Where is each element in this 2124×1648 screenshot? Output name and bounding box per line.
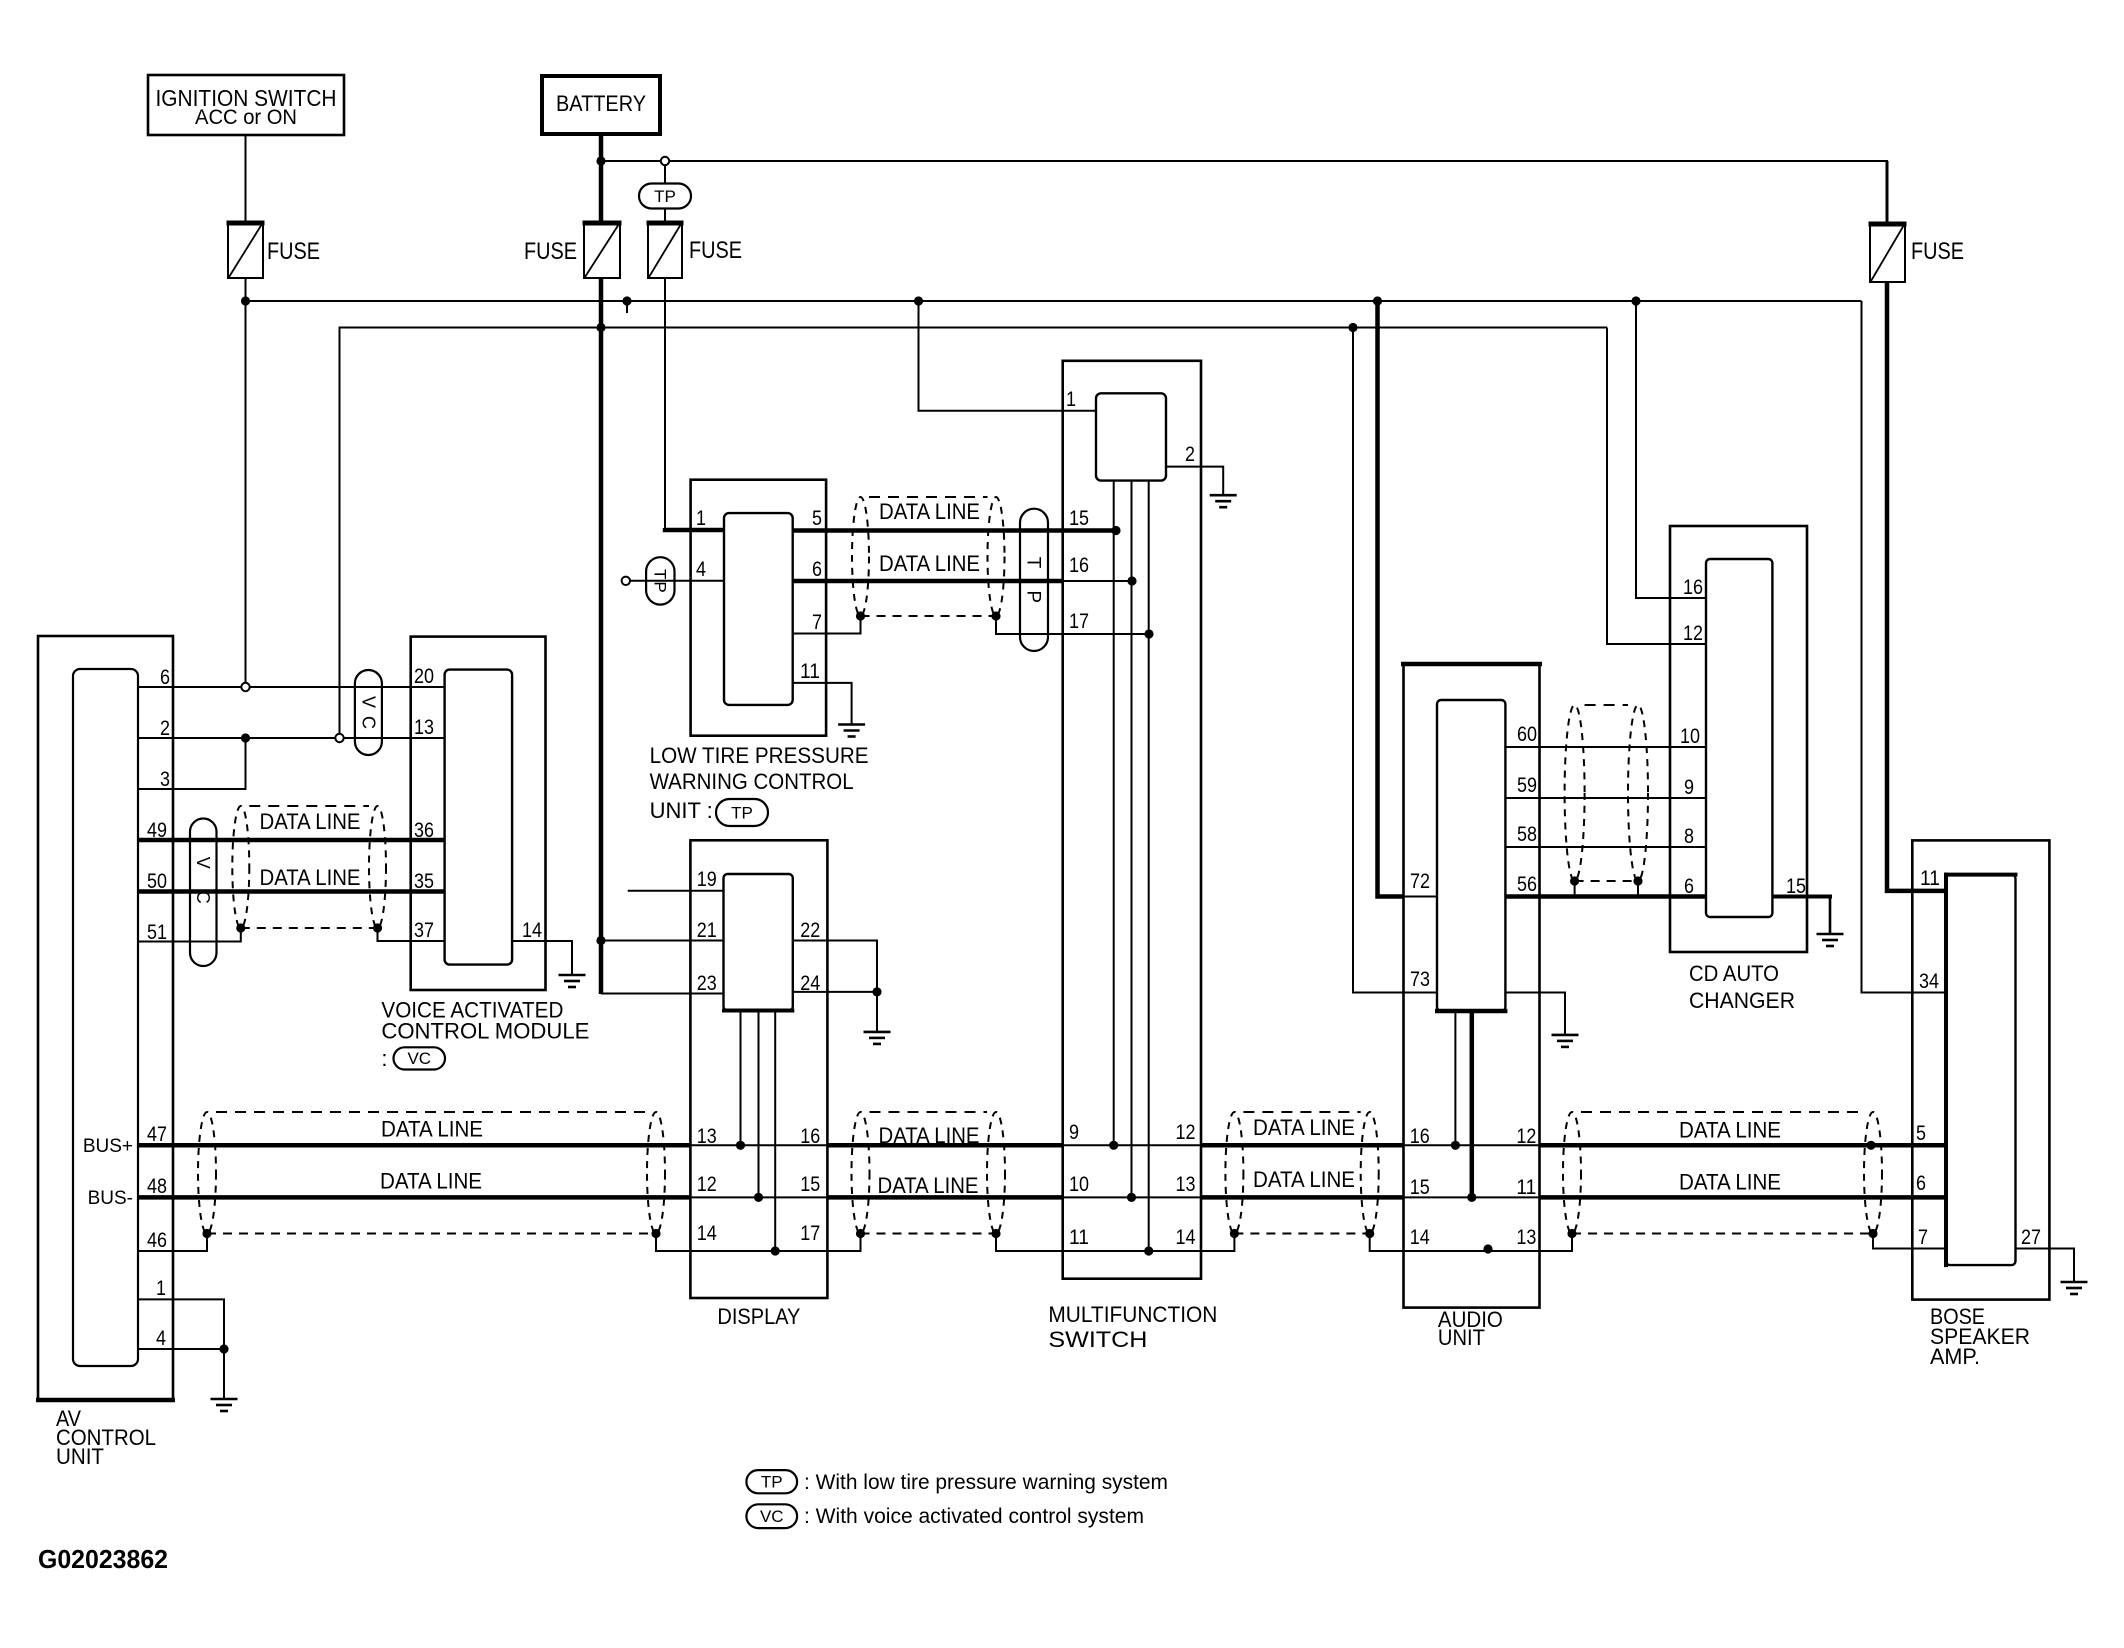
svg-text:14: 14 [522, 919, 542, 942]
node audio drop2 on BUS- [1467, 1193, 1476, 1202]
svg-text:13: 13 [414, 716, 434, 739]
svg-text:58: 58 [1517, 823, 1537, 846]
wire BUS+ display to multifunction (thick) [827, 1143, 1062, 1148]
voice shield drain dashed [241, 927, 378, 929]
wire audio ground line [1505, 993, 1565, 1035]
wire fuse F2 output thick vertical to display pins 21/23 [599, 278, 604, 994]
wire audio 59 to CD 9 [1505, 797, 1706, 799]
node line2 x1353 [1348, 323, 1357, 332]
wire BUS+ multifunction to audio (thick) [1201, 1143, 1404, 1148]
node AV ground junction [219, 1344, 228, 1353]
svg-text:7: 7 [1918, 1226, 1928, 1249]
bus drain dashed AV-display [207, 1233, 656, 1235]
node voice shield drain left [236, 923, 245, 932]
node display ground junction [872, 987, 881, 996]
svg-text:23: 23 [697, 972, 717, 995]
legend VC symbol [746, 1504, 797, 1528]
low tire unit inner connector box [724, 513, 793, 705]
svg-text:TP: TP [761, 1472, 783, 1491]
TP legend symbol at low tire unit [716, 799, 768, 826]
wire BUS- AV to display (thick) [138, 1195, 690, 1200]
node multi drop3 on drain [1144, 1246, 1153, 1255]
node low tire shield drain left [856, 611, 865, 620]
bus shield AV-display [198, 1112, 216, 1234]
svg-text:CHANGER: CHANGER [1689, 988, 1795, 1013]
node ACC at ignition fuse [241, 296, 250, 305]
svg-text:DATA LINE: DATA LINE [260, 809, 361, 834]
svg-text:SWITCH: SWITCH [1048, 1327, 1147, 1352]
svg-text:: With low tire pressure warni: : With low tire pressure warning system [804, 1470, 1168, 1494]
wire AV pin 3 up to pin 2 [138, 738, 246, 789]
wire BUS- audio to BOSE (thick) [1540, 1195, 1947, 1200]
wire audio connector drop 2 (thick) [1470, 1011, 1475, 1197]
ground display [864, 1031, 891, 1034]
svg-text:15: 15 [1410, 1176, 1430, 1199]
multifunction inner connector box (top) [1096, 393, 1166, 480]
svg-text:TP: TP [731, 803, 753, 822]
node drain 656 [651, 1229, 660, 1238]
ground audio unit [1552, 1034, 1579, 1037]
svg-text:21: 21 [697, 919, 717, 942]
wire display connector drop 1 [740, 1011, 742, 1146]
svg-text:DATA LINE: DATA LINE [878, 1173, 979, 1198]
wire data line AV 49 to voice 36 (thick) [138, 838, 445, 843]
svg-text:6: 6 [160, 666, 170, 689]
wire drop to CD pin 12 [1607, 328, 1706, 645]
wire multifunction connector drop 1 [1113, 481, 1115, 1146]
svg-text:60: 60 [1517, 723, 1537, 746]
svg-text:UNIT :: UNIT : [650, 798, 713, 823]
wire AV pin 46 to bus drain [138, 1234, 207, 1252]
wire display pin 22 to ground junction [793, 941, 877, 992]
svg-text:UNIT: UNIT [56, 1444, 104, 1469]
node ACC stub x627 [622, 296, 631, 305]
svg-text:11: 11 [1920, 867, 1940, 890]
wire circle to TP symbol [664, 165, 666, 184]
display inner connector box [724, 874, 793, 1011]
svg-text:FUSE: FUSE [267, 238, 320, 265]
svg-text:27: 27 [2021, 1226, 2041, 1249]
wire AV pin 2 to voice module pin 13 [138, 737, 445, 739]
svg-text:4: 4 [696, 558, 706, 581]
ground CD auto changer [1817, 933, 1844, 936]
wire audio 60 to CD 10 [1505, 746, 1706, 748]
svg-text:FUSE: FUSE [689, 237, 742, 264]
bus drain dashed audio-BOSE [1572, 1233, 1873, 1235]
wire BUS+ audio to BOSE (thick) [1540, 1143, 1947, 1148]
low tire pressure warning control unit outer box [691, 480, 827, 736]
svg-text:59: 59 [1517, 774, 1537, 797]
display outer box [690, 840, 827, 1298]
CD data shield [1565, 705, 1585, 881]
svg-text:14: 14 [1410, 1226, 1430, 1249]
svg-text:37: 37 [414, 919, 434, 942]
low tire shield drain dashed [861, 615, 997, 617]
node fuse F2 output on line ACC2 [596, 323, 605, 332]
svg-text:: With voice activated control: : With voice activated control system [804, 1504, 1144, 1528]
bus shield audio-BOSE [1563, 1112, 1581, 1234]
svg-text:VC: VC [760, 1507, 784, 1526]
node display drop1 on BUS+ [736, 1141, 745, 1150]
node low tire shield drain right [991, 611, 1000, 620]
svg-text:DATA LINE: DATA LINE [879, 499, 980, 524]
wire ignition switch to fuse F1 [245, 135, 247, 223]
svg-text:16: 16 [1069, 554, 1089, 577]
svg-text:DISPLAY: DISPLAY [717, 1304, 800, 1329]
wire battery to display pin 21 [601, 940, 724, 942]
svg-text:ACC or ON: ACC or ON [195, 105, 297, 129]
svg-text:2: 2 [1185, 443, 1195, 466]
node battery feed at display pin 21 [596, 936, 605, 945]
VC option symbol on pins 6/2 [355, 670, 382, 755]
wire fuse F4 down to BOSE pin 11 (thick) [1887, 282, 1946, 891]
node audio drain dot [1483, 1244, 1492, 1253]
node drain 1234 [1230, 1229, 1239, 1238]
ground multifunction switch [1210, 494, 1237, 497]
svg-text:BATTERY: BATTERY [556, 91, 646, 116]
node voice shield drain right [373, 923, 382, 932]
connector circle AV pin 2 [335, 734, 343, 742]
wire multifunction pin 2 to ground [1166, 467, 1223, 496]
svg-text:22: 22 [800, 919, 820, 942]
svg-text:BUS+: BUS+ [83, 1136, 133, 1157]
svg-text:AMP.: AMP. [1930, 1344, 1980, 1369]
TP option symbol (battery feed) [639, 184, 691, 209]
node ACC to audio pin 72 [1373, 296, 1382, 305]
CD shield drain dashed [1575, 880, 1638, 882]
node ACC to CD pin 16 [1631, 296, 1640, 305]
wire data line low tire 6 to multi 16 (thick+thin) [793, 579, 1063, 584]
CD auto changer inner connector box [1706, 559, 1772, 917]
svg-text:VC: VC [193, 857, 213, 926]
svg-text:12: 12 [697, 1173, 717, 1196]
node B1 battery junction [596, 156, 605, 165]
svg-text:3: 3 [160, 768, 170, 791]
wire circle to low tire pin 4 [630, 580, 724, 582]
svg-text:G02023862: G02023862 [38, 1544, 168, 1574]
wire ACC line y301 [246, 300, 1862, 302]
svg-text:35: 35 [414, 870, 434, 893]
node multi drop1 on BUS+ [1109, 1141, 1118, 1150]
node audio drop1 on BUS+ [1451, 1141, 1460, 1150]
fuse F1 (ignition ACC) [228, 223, 263, 278]
svg-text:5: 5 [812, 507, 822, 530]
wire to AV ground [223, 1349, 225, 1399]
svg-text:10: 10 [1680, 725, 1700, 748]
node AV pin 2 junction [241, 733, 250, 742]
low tire data shield [852, 497, 869, 616]
wire node B1 to right fuse F4 (B+ rail) [605, 160, 1888, 162]
multifunction switch outer box [1063, 361, 1201, 1279]
node CD shield drain right [1633, 876, 1642, 885]
VC legend symbol at voice module [394, 1047, 446, 1069]
svg-text:FUSE: FUSE [1911, 238, 1964, 265]
BOSE inner connector box [1946, 875, 2016, 1266]
node multi drop2 on BUS- [1127, 1193, 1136, 1202]
voice data shield [232, 806, 249, 928]
svg-text:1: 1 [696, 507, 706, 530]
svg-text:17: 17 [800, 1222, 820, 1245]
svg-text:CD AUTO: CD AUTO [1689, 961, 1779, 986]
svg-text:FUSE: FUSE [524, 238, 577, 265]
wire audio connector drop 1 [1454, 1011, 1456, 1145]
node drain 860 [856, 1229, 865, 1238]
voice activated control module outer box [411, 637, 546, 990]
svg-text:DATA LINE: DATA LINE [879, 551, 980, 576]
svg-text:8: 8 [1684, 825, 1694, 848]
svg-text:DATA LINE: DATA LINE [381, 1117, 483, 1142]
audio unit inner connector box [1437, 700, 1505, 1011]
bus drain dashed multifunction-audio [1234, 1233, 1369, 1235]
svg-text:34: 34 [1919, 970, 1939, 993]
svg-text:12: 12 [1516, 1125, 1536, 1148]
svg-text:9: 9 [1069, 1121, 1079, 1144]
wire drain audio pins 14-13 [1370, 1234, 1572, 1252]
wire data line low tire 5 to multi 15 (thick) [793, 528, 1116, 533]
wire CD pin 15 to ground [1772, 895, 1832, 899]
ground AV control unit [211, 1398, 238, 1401]
svg-text:DATA LINE: DATA LINE [1679, 1170, 1781, 1195]
svg-text:UNIT: UNIT [1438, 1325, 1485, 1350]
node multi pin 15 [1111, 526, 1120, 535]
svg-text:6: 6 [1916, 1172, 1926, 1195]
node multi pin 17 [1144, 629, 1153, 638]
wire BOSE pin 27 to ground [2016, 1249, 2075, 1283]
svg-text:73: 73 [1410, 968, 1430, 991]
svg-text:MULTIFUNCTION: MULTIFUNCTION [1048, 1302, 1217, 1327]
node display drop2 on BUS- [754, 1193, 763, 1202]
svg-text:11: 11 [1516, 1176, 1536, 1199]
VC option symbol on pins 49/50/51 [190, 819, 217, 967]
svg-text:6: 6 [812, 558, 822, 581]
svg-text:2: 2 [160, 717, 170, 740]
svg-text:9: 9 [1684, 776, 1694, 799]
voice module inner connector box [445, 670, 512, 965]
node CD shield drain left [1570, 876, 1579, 885]
wire BUS- inside display [690, 1196, 827, 1198]
wire TP fuse to low tire pin 1 (thick) [664, 278, 666, 530]
wire battery to display pin 23 [601, 993, 724, 995]
wire battery to node B1 (thick) [599, 134, 604, 223]
svg-text:16: 16 [1683, 576, 1703, 599]
svg-text:16: 16 [1410, 1125, 1430, 1148]
svg-text:12: 12 [1176, 1121, 1196, 1144]
svg-text:DATA LINE: DATA LINE [1679, 1118, 1781, 1143]
wire low tire pin 7 to shield drain [793, 616, 861, 634]
wire multifunction connector drop 3 [1148, 481, 1150, 1251]
wire data line AV 50 to voice 35 (thick) [138, 889, 445, 894]
ground BOSE speaker amp [2061, 1281, 2088, 1284]
wire drop to CD pin 16 [1636, 301, 1706, 598]
wire AV pin 4 to ground [138, 1348, 224, 1350]
svg-text:48: 48 [147, 1175, 167, 1198]
connector circle AV pin 6 [241, 683, 249, 691]
svg-text:4: 4 [156, 1327, 166, 1350]
wire display connector drop 3 [774, 1011, 776, 1252]
battery box [542, 76, 660, 134]
node multi pin 16 [1127, 576, 1136, 585]
wire shield drain to multi pin 17 [996, 616, 1149, 634]
svg-text:14: 14 [697, 1222, 717, 1245]
wire AV pin 51 to shield drain [138, 928, 241, 942]
svg-text:17: 17 [1069, 610, 1089, 633]
bus shield multifunction-audio [1225, 1112, 1243, 1234]
svg-text:19: 19 [697, 868, 717, 891]
svg-text:TP: TP [654, 187, 676, 206]
svg-text:20: 20 [414, 665, 434, 688]
TP option symbol large (data lines) [1020, 509, 1048, 651]
svg-text:13: 13 [1176, 1173, 1196, 1196]
wire data line audio 56 to CD 6 (thick) [1505, 894, 1706, 899]
svg-text:DATA LINE: DATA LINE [1253, 1167, 1355, 1192]
fuse F4 (right) [1870, 224, 1905, 282]
wire BUS- inside audio [1404, 1196, 1540, 1198]
wire battery line2 y327.5 [340, 328, 1608, 739]
node ACC to multifunction [914, 296, 923, 305]
bus shield display-multifunction [852, 1112, 870, 1234]
wire TP symbol to fuse F3 [664, 209, 666, 224]
svg-text:DATA LINE: DATA LINE [380, 1169, 482, 1194]
svg-text::: : [381, 1046, 387, 1071]
wire low tire pin 11 to ground [793, 683, 852, 725]
svg-text:1: 1 [156, 1277, 166, 1300]
wire AV pin 6 to voice module pin 20 [138, 686, 445, 688]
AV control unit outer box [38, 636, 173, 1400]
wire BUS+ AV to display (thick) [138, 1143, 690, 1148]
audio unit outer box [1404, 664, 1540, 1308]
svg-text:36: 36 [414, 819, 434, 842]
connector circle on B+ rail [661, 157, 669, 165]
svg-text:CONTROL MODULE: CONTROL MODULE [381, 1018, 589, 1043]
wire BUS- multifunction to audio (thick) [1201, 1195, 1404, 1200]
fuse F3 (TP) [648, 223, 682, 278]
node drain 996 [991, 1229, 1000, 1238]
wire ACC corner down to BOSE pin 34 [1862, 301, 1947, 993]
svg-text:15: 15 [800, 1173, 820, 1196]
svg-text:56: 56 [1517, 873, 1537, 896]
wire display pin 24 to ground [793, 991, 877, 993]
svg-text:WARNING CONTROL: WARNING CONTROL [650, 769, 854, 794]
svg-text:VC: VC [407, 1049, 431, 1068]
svg-text:47: 47 [147, 1123, 167, 1146]
wire drop to audio pin 73 [1353, 328, 1437, 993]
AV control unit inner connector box [73, 669, 138, 1366]
fuse F2 (battery) [584, 223, 620, 278]
ground voice module [559, 974, 586, 977]
wire audio 58 to CD 8 [1505, 846, 1706, 848]
node drain 1370 [1365, 1229, 1374, 1238]
svg-text:10: 10 [1069, 1173, 1089, 1196]
wire drain multifunction pins 11-14 [996, 1234, 1234, 1252]
wire shield drain to voice pin 37 [378, 928, 445, 941]
svg-text:46: 46 [147, 1229, 167, 1252]
wire drop to audio pin 72 (thick) [1378, 301, 1404, 897]
legend TP symbol [746, 1470, 797, 1493]
svg-text:14: 14 [1176, 1226, 1196, 1249]
node drain 207 [202, 1229, 211, 1238]
wire AV pin 1 down to pin 4 [138, 1299, 224, 1349]
ground low tire unit [838, 723, 865, 726]
BOSE speaker amp outer box [1912, 840, 2049, 1299]
wire BUS- display to multifunction (thick) [827, 1195, 1062, 1200]
wire BUS+ inside audio [1404, 1144, 1540, 1146]
wire BUS+ inside multifunction [1063, 1144, 1201, 1146]
CD auto changer outer box [1670, 526, 1807, 952]
svg-text:LOW TIRE PRESSURE: LOW TIRE PRESSURE [650, 743, 869, 768]
wire multifunction connector drop 2 [1131, 481, 1133, 1198]
wire voice pin 14 to ground [512, 941, 572, 975]
node drain 1572 [1567, 1229, 1576, 1238]
svg-text:7: 7 [812, 611, 822, 634]
ignition switch box [148, 75, 344, 135]
svg-text:12: 12 [1683, 622, 1703, 645]
svg-text:13: 13 [1516, 1226, 1536, 1249]
wire drain display pins 14-17 [656, 1234, 861, 1252]
node BUS+ at BOSE shield [1866, 1141, 1875, 1150]
connector circle low tire pin 4 [622, 577, 630, 585]
svg-text:TP: TP [651, 569, 670, 595]
svg-text:11: 11 [1069, 1226, 1089, 1249]
svg-text:BUS-: BUS- [88, 1188, 133, 1209]
svg-text:VC: VC [358, 696, 378, 737]
wire BUS- inside multifunction [1063, 1196, 1201, 1198]
wire drain to BOSE pin 7 [1873, 1234, 1946, 1249]
wire display pin 19 stub [628, 890, 724, 892]
svg-text:11: 11 [800, 660, 820, 683]
svg-text:DATA LINE: DATA LINE [879, 1123, 980, 1148]
wire ignition feed down to AV pin 6 circle [245, 278, 247, 683]
wire BUS+ inside display [690, 1144, 827, 1146]
svg-text:1: 1 [1066, 388, 1076, 411]
TP option symbol on low tire pin 4 [646, 557, 674, 604]
wire drop to multifunction inner pin 1 [919, 301, 1097, 411]
node drain 1873 [1868, 1229, 1877, 1238]
wire display connector drop 2 [758, 1011, 760, 1198]
svg-text:DATA LINE: DATA LINE [1253, 1115, 1355, 1140]
svg-text:DATA LINE: DATA LINE [260, 865, 361, 890]
svg-text:TP: TP [1023, 557, 1044, 625]
bus drain dashed display-multifunction [861, 1233, 997, 1235]
svg-text:72: 72 [1410, 870, 1430, 893]
svg-text:15: 15 [1069, 507, 1089, 530]
node display drop3 on drain [771, 1246, 780, 1255]
svg-text:5: 5 [1916, 1122, 1926, 1145]
svg-text:6: 6 [1684, 875, 1694, 898]
